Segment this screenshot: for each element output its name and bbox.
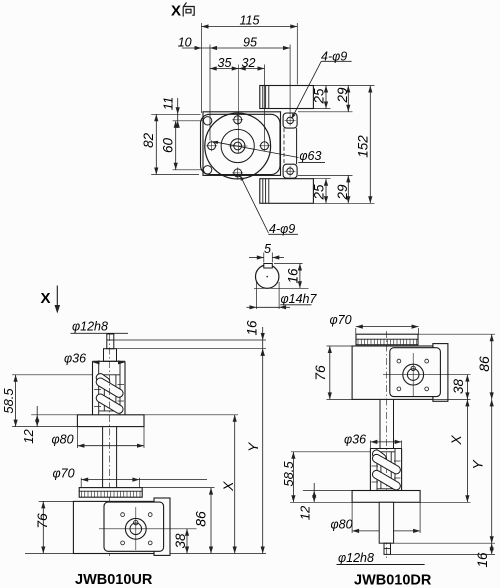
- svg-text:12: 12: [298, 505, 313, 520]
- svg-text:32: 32: [242, 56, 256, 70]
- svg-text:X: X: [40, 290, 50, 307]
- svg-text:X: X: [171, 3, 181, 20]
- dim X UR: [234, 415, 236, 554]
- dim 152: [369, 86, 371, 204]
- svg-text:29: 29: [335, 184, 350, 201]
- svg-text:25: 25: [311, 88, 326, 105]
- extension disc top to dim86 DR: [418, 333, 495, 335]
- svg-text:86: 86: [476, 356, 492, 372]
- output keyway circle DR: [411, 366, 415, 370]
- extension shaft tip to dim16 DR: [391, 553, 496, 555]
- input shaft DR: [384, 543, 391, 554]
- dim 11: [177, 98, 179, 128]
- svg-text:X: X: [448, 435, 464, 446]
- worm axis centerline UR: [109, 334, 111, 556]
- flange phi80 UR: [77, 415, 144, 427]
- svg-text:25: 25: [311, 184, 326, 201]
- gearbox face plate UR: [104, 502, 164, 551]
- svg-text:φ36: φ36: [64, 351, 86, 365]
- svg-text:Y: Y: [245, 441, 261, 452]
- extension hole top left: [173, 120, 204, 122]
- svg-text:11: 11: [161, 97, 176, 111]
- leader phi63: [214, 142, 299, 158]
- face bolt holes DR: [397, 359, 401, 363]
- hub outer circle: [231, 139, 245, 153]
- extension flange top left DR: [303, 490, 352, 492]
- extension plate top left: [151, 113, 200, 115]
- extension hole bottom left: [173, 169, 204, 171]
- gearbox housing UR: [73, 501, 154, 553]
- dim 12 UR: [36, 406, 38, 427]
- worm hatch ticks UR: [94, 389, 101, 391]
- keyseat line DR: [384, 548, 391, 550]
- svg-text:φ12h8: φ12h8: [338, 551, 374, 565]
- svg-text:Y: Y: [470, 459, 486, 470]
- top mounting foot lower: [260, 179, 314, 204]
- plate corner hole upper-left: [203, 117, 211, 125]
- worm axis centerline DR: [386, 331, 388, 560]
- foot upper edge lines: [262, 86, 264, 109]
- worm core DR: [380, 452, 382, 489]
- dim phi80 UR: [76, 427, 78, 448]
- plate corner hole lower-left: [203, 166, 211, 174]
- svg-text:82: 82: [141, 132, 156, 148]
- extension flange top right to dimX: [144, 414, 238, 416]
- extension collar top to dimY: [117, 348, 267, 350]
- bolt hole top: [234, 116, 242, 124]
- gearbox foot plate UR: [154, 498, 170, 555]
- svg-text:58.5: 58.5: [1, 388, 16, 414]
- input flange plate: [201, 114, 281, 174]
- dim 58.5 UR: [12, 374, 92, 376]
- output keyway circle UR: [134, 520, 138, 524]
- flange inner circle: [221, 129, 254, 162]
- foot lower edge lines: [262, 179, 264, 204]
- gearbox housing DR: [352, 346, 433, 399]
- extension line plate left: [201, 23, 203, 113]
- extension flange bottom left: [12, 426, 77, 428]
- dim 86 UR: [142, 487, 214, 489]
- svg-text:φ70: φ70: [53, 466, 75, 480]
- dim 58.5 DR: [291, 451, 370, 453]
- bottom extension line UR: [170, 553, 266, 555]
- dim 95: [210, 47, 290, 49]
- dim 10: [182, 47, 210, 49]
- gearbox foot plate DR: [433, 344, 448, 402]
- key on shaft: [264, 264, 273, 269]
- bolt hole left: [208, 142, 216, 150]
- output centerlines DR: [383, 374, 471, 376]
- dim 35: [210, 68, 239, 70]
- dim 29 lower: [347, 175, 349, 203]
- extension key top: [274, 263, 303, 265]
- hub bore circle: [234, 142, 242, 150]
- input shaft UR: [107, 334, 114, 349]
- dim phi14h7: [256, 282, 258, 309]
- extension housing bottom to dims DR: [433, 398, 471, 400]
- svg-text:38: 38: [451, 379, 466, 395]
- dim phi70 UR: [80, 478, 82, 488]
- extension line pad hole: [289, 45, 291, 115]
- worm tube UR: [93, 360, 126, 362]
- dim Y DR: [491, 399, 493, 543]
- centerline horizontal of hub: [229, 145, 248, 147]
- neck tube UR: [102, 427, 104, 489]
- rear pad lower: [283, 164, 297, 178]
- dim 29 upper: [347, 86, 349, 112]
- bearing disc phi70 DR: [356, 334, 418, 345]
- svg-text:JWB010UR: JWB010UR: [75, 572, 153, 588]
- dim 76 DR: [327, 345, 353, 347]
- bearing disc phi70 UR: [79, 488, 142, 498]
- face bolt holes UR: [121, 513, 125, 517]
- dim 25 upper: [325, 86, 327, 109]
- worm thread bands DR: [372, 450, 385, 462]
- extension flange top left: [31, 414, 77, 416]
- rear pad upper: [283, 113, 297, 128]
- dim phi36 DR: [369, 441, 371, 449]
- extension line left hole: [209, 45, 211, 141]
- svg-text:φ80: φ80: [52, 432, 74, 446]
- svg-text:JWB010DR: JWB010DR: [354, 573, 432, 588]
- svg-text:12: 12: [21, 429, 36, 444]
- tube bore lines UR: [98, 361, 100, 415]
- flange phi80 DR: [352, 491, 420, 503]
- dim phi70 DR: [355, 328, 357, 334]
- svg-text:29: 29: [335, 87, 350, 104]
- dim 25 lower: [325, 179, 327, 204]
- dim 12 DR: [313, 483, 315, 502]
- svg-text:76: 76: [34, 513, 50, 529]
- svg-text:φ63: φ63: [299, 149, 321, 163]
- svg-text:φ14h7: φ14h7: [281, 292, 318, 306]
- worm tube DR: [370, 448, 401, 450]
- svg-text:φ80: φ80: [331, 517, 353, 531]
- dim 16 DR: [491, 543, 493, 554]
- dim 38 DR: [466, 375, 468, 400]
- rear face edge line: [296, 128, 298, 164]
- svg-text:16: 16: [475, 552, 490, 568]
- dim phi80 DR: [351, 502, 353, 533]
- extension flange bottom right to dimX DR: [420, 501, 470, 503]
- gearbox face plate DR: [390, 348, 441, 397]
- svg-text:115: 115: [240, 14, 260, 28]
- extension lines right side: [313, 85, 374, 87]
- dim phi36 UR arrows: [93, 360, 100, 364]
- keyseat line UR: [107, 339, 114, 341]
- svg-text:86: 86: [193, 511, 209, 527]
- leader 4-phi9 top: [292, 61, 321, 117]
- worm core UR: [103, 375, 105, 411]
- svg-text:φ12h8: φ12h8: [72, 320, 108, 334]
- dim 115: [202, 26, 298, 28]
- worm hatch ticks DR: [372, 465, 379, 467]
- shaft collar DR: [379, 502, 393, 543]
- svg-text:76: 76: [312, 365, 328, 381]
- svg-text:φ36: φ36: [344, 432, 366, 446]
- rear pad upper hole: [287, 117, 294, 124]
- svg-text:95: 95: [243, 36, 257, 50]
- tube bore lines DR: [376, 449, 378, 491]
- output hub outer DR: [403, 364, 424, 385]
- extension line rear face: [296, 23, 298, 85]
- svg-text:X: X: [220, 481, 236, 492]
- neck tube DR: [379, 399, 381, 448]
- leader 4-phi9 bottom: [241, 176, 269, 233]
- extension plate bottom left: [151, 174, 199, 176]
- housing body square: [203, 112, 281, 176]
- centerline vertical of flange: [238, 65, 240, 154]
- flange circle phi80 outer: [205, 113, 271, 179]
- rear pad lower hole: [287, 168, 294, 175]
- svg-text:φ70: φ70: [330, 313, 352, 327]
- bolt hole bottom: [234, 169, 242, 177]
- svg-text:5: 5: [264, 242, 271, 256]
- svg-text:58.5: 58.5: [281, 461, 296, 487]
- extension shaft key to dim16: [114, 339, 266, 341]
- dim 16 section: [299, 264, 301, 289]
- dim 76 UR: [39, 500, 74, 502]
- dim 82: [155, 114, 157, 174]
- dim 38 UR: [186, 529, 188, 554]
- dim 16 UR: [262, 327, 264, 349]
- dim 5 key width: [263, 253, 265, 263]
- extension collar bottom to dimY DR: [394, 542, 495, 544]
- dim 32: [239, 68, 265, 70]
- output hub outer UR: [125, 518, 146, 539]
- svg-text:152: 152: [355, 135, 370, 158]
- svg-text:16: 16: [285, 268, 300, 284]
- svg-text:10: 10: [178, 36, 192, 50]
- worm thread bands UR: [96, 374, 110, 386]
- output bore DR: [407, 369, 419, 381]
- svg-text:60: 60: [160, 138, 175, 154]
- svg-text:38: 38: [173, 533, 188, 549]
- dim 86 DR: [491, 334, 493, 399]
- extension line right hole: [264, 65, 266, 141]
- svg-text:35: 35: [218, 56, 232, 70]
- shaft collar UR: [104, 349, 117, 362]
- output bore UR: [130, 523, 142, 535]
- extension circle bottom: [254, 287, 309, 289]
- bolt hole right: [261, 142, 269, 150]
- rear face hidden line: [283, 128, 285, 164]
- dim X DR: [466, 399, 468, 502]
- output centerlines UR: [99, 528, 197, 530]
- svg-text:16: 16: [244, 320, 259, 336]
- shaft section circle phi14: [256, 265, 279, 288]
- top mounting foot upper: [260, 86, 314, 109]
- dim 60: [175, 121, 177, 170]
- dim Y UR: [262, 349, 264, 554]
